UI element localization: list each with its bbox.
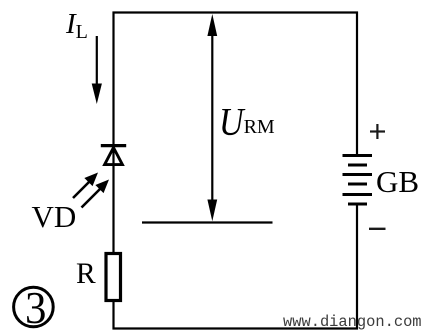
- resistor R body: [106, 254, 121, 301]
- voltage arrow URM (double headed): [207, 14, 217, 221]
- minus sign: [369, 228, 386, 230]
- wire left lower: [112, 301, 114, 330]
- wire left (continuous through photodiode): [112, 12, 114, 254]
- watermark: [283, 313, 422, 331]
- wire bottom: [113, 327, 359, 329]
- light arrow 2: [82, 180, 110, 208]
- circle of numbered label 3: [14, 287, 54, 327]
- battery GB short plate 1: [348, 164, 367, 167]
- photodiode VD triangle: [105, 148, 123, 165]
- battery GB long plate 2: [343, 173, 373, 176]
- battery GB long plate 1: [343, 154, 373, 157]
- digit 3: [25, 281, 46, 334]
- label R: [76, 258, 96, 291]
- wire top: [113, 11, 359, 13]
- label URM: [219, 101, 275, 139]
- battery GB short plate 2: [348, 183, 367, 186]
- light arrow 1: [73, 173, 98, 199]
- plus sign: [370, 124, 385, 139]
- label GB: [376, 164, 419, 200]
- label VD: [32, 199, 77, 235]
- label IL: [66, 8, 88, 44]
- wire right lower: [356, 204, 358, 330]
- reference line: [142, 221, 273, 223]
- wire right upper: [356, 12, 358, 156]
- current arrow IL: [92, 36, 102, 104]
- photodiode VD cathode bar: [101, 144, 126, 147]
- battery GB short plate 3: [348, 203, 367, 206]
- battery GB long plate 3: [343, 193, 373, 196]
